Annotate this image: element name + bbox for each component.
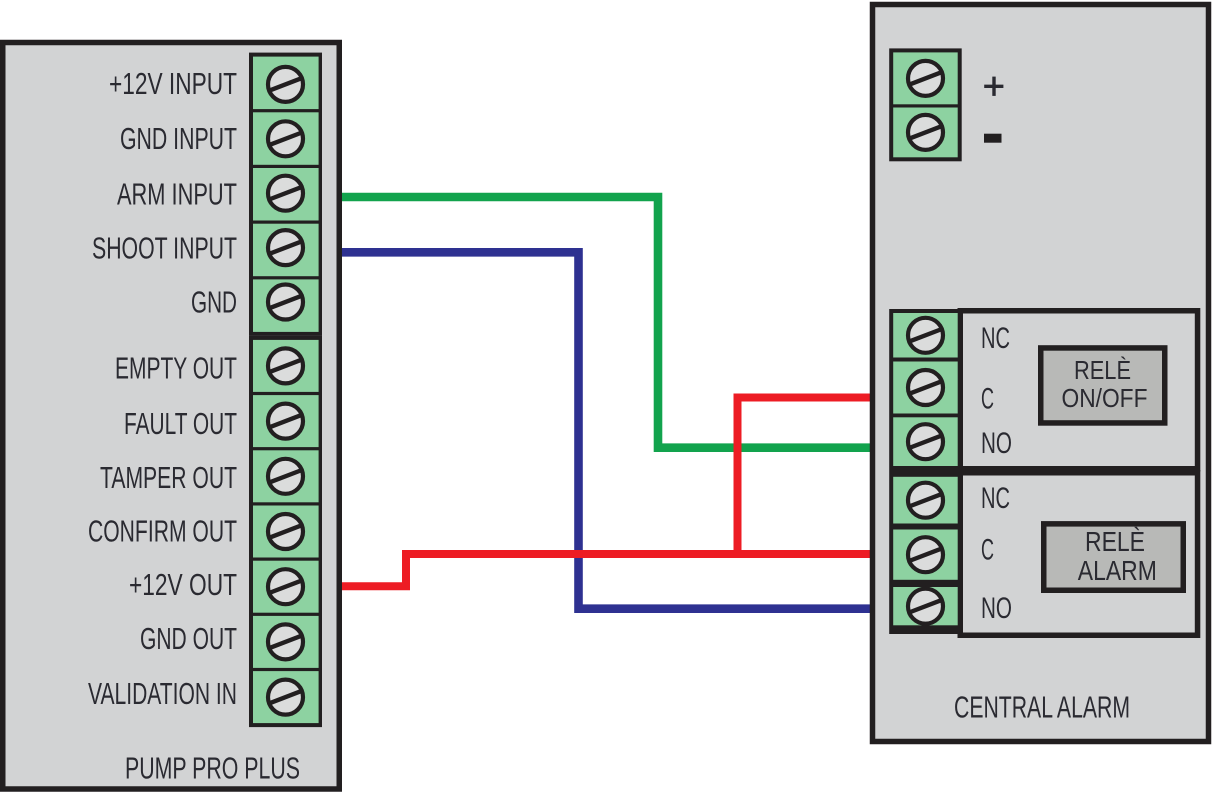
screw terminal TAMPER OUT (268, 459, 303, 494)
svg-text:VALIDATION IN: VALIDATION IN (88, 678, 237, 711)
svg-text:+12V OUT: +12V OUT (129, 569, 237, 602)
screw terminal +12V INPUT (268, 67, 303, 102)
relay U2 box RELE ALARM (960, 473, 1197, 636)
screw terminal CONFIRM OUT (268, 514, 303, 549)
svg-text:SHOOT INPUT: SHOOT INPUT (92, 232, 237, 265)
relay U1 box RELE ON/OFF (960, 311, 1197, 469)
wire red branch to C relay1 (738, 398, 874, 558)
svg-text:RELÈ: RELÈ (1074, 355, 1131, 385)
module box CENTRAL ALARM (873, 5, 1209, 742)
svg-text:NC: NC (981, 482, 1010, 515)
svg-text:NC: NC (981, 322, 1010, 355)
svg-text:TAMPER OUT: TAMPER OUT (100, 462, 237, 495)
svg-text:+12V INPUT: +12V INPUT (109, 68, 237, 101)
pin label + (984, 77, 1003, 96)
screw terminal C relay2 (908, 537, 943, 572)
svg-text:PUMP PRO PLUS: PUMP PRO PLUS (125, 752, 300, 785)
terminal strip block B (outputs) (249, 336, 322, 727)
terminal strip block A (inputs) (249, 53, 322, 336)
screw terminal EMPTY OUT (268, 348, 303, 383)
svg-text:ON/OFF: ON/OFF (1062, 383, 1148, 413)
screw terminal GND OUT (268, 624, 303, 659)
screw terminal C relay1 (908, 370, 943, 405)
module box PUMP PRO PLUS (3, 43, 340, 790)
pin label - (984, 134, 1002, 143)
svg-text:CONFIRM OUT: CONFIRM OUT (88, 515, 237, 548)
wire blue SHOOT INPUT to NO relay2 (341, 252, 873, 608)
screw terminal VALIDATION IN (268, 680, 303, 715)
svg-text:NO: NO (981, 427, 1012, 460)
svg-text:FAULT OUT: FAULT OUT (124, 408, 237, 441)
screw terminal FAULT OUT (268, 404, 303, 439)
svg-text:ALARM: ALARM (1078, 555, 1157, 586)
relay terminal strip (NC C NO x2) (889, 309, 962, 634)
screw terminal - (908, 115, 943, 150)
screw terminal NC relay1 (908, 318, 943, 353)
screw terminal GND (268, 285, 303, 320)
screw terminal GND INPUT (268, 121, 303, 156)
svg-text:GND INPUT: GND INPUT (120, 123, 237, 156)
svg-text:C: C (981, 382, 994, 415)
screw terminal NO relay1 (908, 424, 943, 459)
svg-text:NO: NO (981, 592, 1012, 625)
wire green ARM INPUT to NO relay1 (341, 197, 873, 448)
svg-text:RELÈ: RELÈ (1085, 526, 1145, 557)
svg-text:C: C (981, 534, 994, 567)
svg-text:EMPTY OUT: EMPTY OUT (115, 352, 237, 385)
screw terminal +12V OUT (268, 569, 303, 604)
svg-text:GND OUT: GND OUT (140, 623, 237, 656)
screw terminal SHOOT INPUT (268, 230, 303, 265)
terminal block +/- (889, 48, 962, 161)
svg-text:GND: GND (191, 286, 237, 319)
svg-text:ARM INPUT: ARM INPUT (117, 178, 237, 211)
wire red +12V OUT to C relay2 (341, 554, 873, 586)
screw terminal NO relay2 (908, 589, 943, 624)
svg-text:CENTRAL ALARM: CENTRAL ALARM (954, 691, 1130, 724)
value label RELE ALARM (1044, 524, 1184, 590)
screw terminal ARM INPUT (268, 176, 303, 211)
screw terminal + (908, 61, 943, 96)
screw terminal NC relay2 (908, 483, 943, 518)
value label RELE ON/OFF (1041, 348, 1165, 423)
